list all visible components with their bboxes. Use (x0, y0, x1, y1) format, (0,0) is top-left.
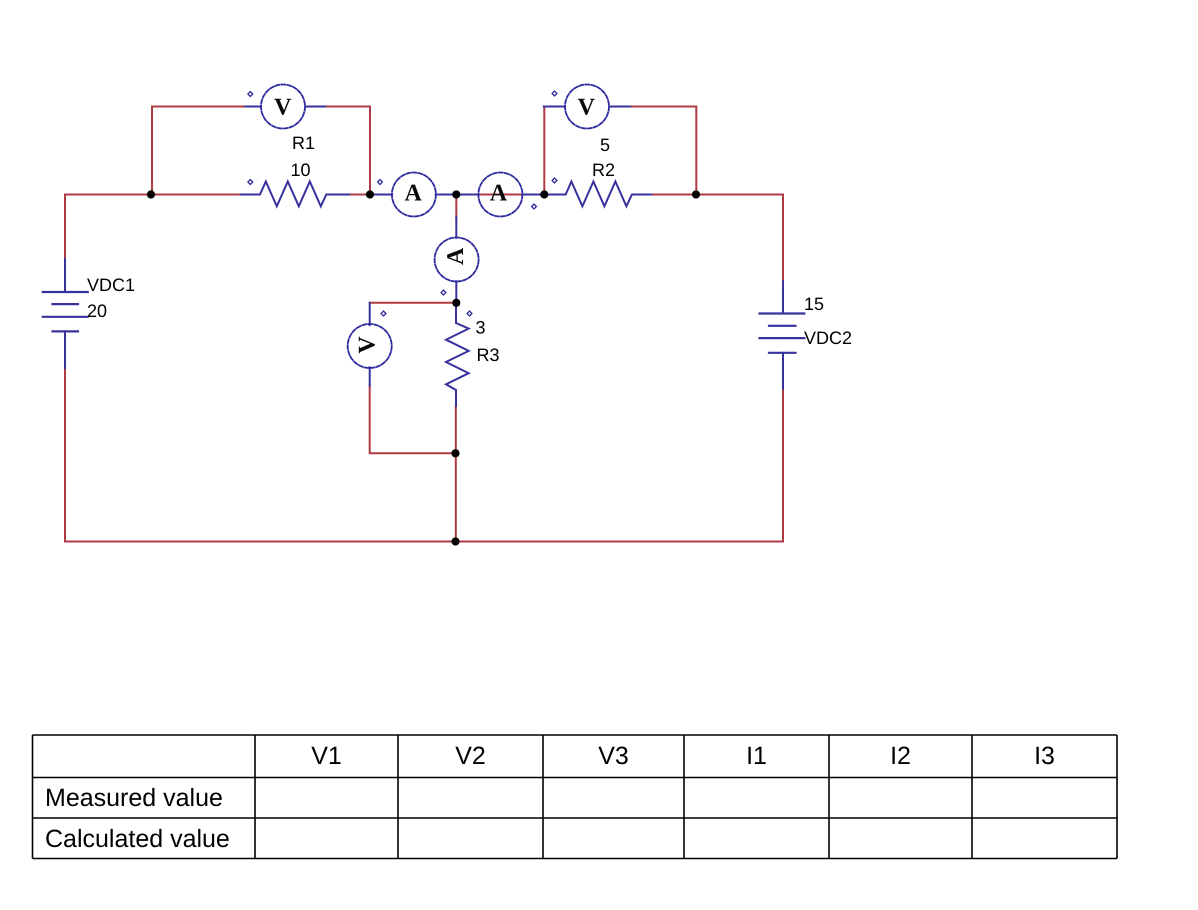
junction node A (left) (147, 190, 155, 198)
svg-text:R1: R1 (292, 133, 315, 153)
junction node G (bottom rail) (451, 537, 459, 545)
svg-text:15: 15 (804, 294, 824, 314)
svg-text:20: 20 (87, 301, 107, 321)
wire bottom rail (red) (65, 541, 783, 543)
svg-text:A: A (405, 181, 423, 207)
junction node C (between A1 and A2) (452, 190, 460, 198)
svg-text:Measured value: Measured value (45, 784, 223, 812)
junction node B (R1 right) (366, 190, 374, 198)
wire R3 bottom to rail (red) (455, 406, 457, 542)
wire node C to ammeter A3 (red) (455, 195, 457, 217)
svg-text:R3: R3 (477, 345, 500, 365)
svg-text:5: 5 (600, 135, 610, 155)
wire junction1 to R1 lead (red) (151, 194, 241, 196)
wire V2 right stub (blue) (609, 106, 630, 108)
svg-text:Calculated value: Calculated value (45, 825, 230, 853)
wire V1 loop left side (red) (152, 107, 246, 195)
wire V2 left stub (blue) (544, 106, 565, 108)
battery VDC1 (43, 292, 88, 331)
resistor R2 with leads (blue) (522, 182, 651, 207)
wire VDC1 top lead (blue) (64, 259, 66, 292)
svg-text:A: A (443, 247, 469, 265)
svg-text:I1: I1 (746, 742, 767, 770)
terminal marker diamond V2 (552, 91, 557, 96)
wire V2 loop left side (red) (543, 107, 545, 195)
voltmeter V3 circle (348, 324, 392, 368)
junction node E (A3 bottom) (452, 299, 460, 307)
wire V3 bottom stub (blue) (369, 367, 371, 385)
terminal marker diamond A2 right (532, 204, 537, 209)
wire VDC2 top feed (red) (782, 195, 784, 282)
wire A1-A2 stubs through node C (blue) (436, 194, 479, 196)
terminal marker diamond R2 left (552, 178, 557, 183)
svg-text:V: V (354, 336, 380, 354)
junction node (V2 tap) (540, 190, 548, 198)
voltmeter V2 circle (565, 85, 609, 129)
results table grid (33, 735, 1118, 859)
wire A3 top stub (blue) (455, 217, 457, 238)
svg-text:I2: I2 (890, 742, 911, 770)
svg-text:V: V (578, 95, 596, 121)
wire VDC2 top lead (blue) (782, 281, 784, 313)
resistor R3 with leads (blue) (446, 303, 469, 406)
terminal marker diamond V3 (381, 311, 386, 316)
resistor R1 (241, 182, 349, 207)
wire VDC1 top feed (red) (64, 195, 66, 260)
svg-text:R2: R2 (592, 160, 615, 180)
wire V3 bottom jog (red) (370, 386, 456, 454)
ammeter A1 circle (392, 173, 436, 217)
wire node E to V3 top (red) (370, 302, 457, 304)
terminal marker diamond R1 left (248, 180, 253, 185)
svg-text:VDC2: VDC2 (804, 328, 852, 348)
svg-text:10: 10 (291, 160, 311, 180)
svg-text:V: V (274, 95, 292, 121)
svg-text:V2: V2 (455, 742, 486, 770)
junction node D (R2 right) (692, 190, 700, 198)
wire VDC2 bottom lead (blue) (782, 353, 784, 389)
wire A1 left stub (blue) (370, 194, 392, 196)
terminal marker diamond A1 left (378, 180, 383, 185)
wire R1 right lead to node B (red) (349, 194, 370, 196)
terminal marker diamond V1 (248, 92, 253, 97)
svg-text:A: A (490, 180, 508, 206)
voltmeter V1 circle (261, 85, 305, 129)
wire left rail top horizontal (red) (65, 194, 151, 196)
wire VDC2 bottom to rail (red) (782, 389, 784, 542)
wire VDC1 bottom lead (blue) (64, 331, 66, 368)
wire V1 loop right side (red) (325, 107, 370, 195)
svg-text:V1: V1 (311, 742, 342, 770)
terminal marker diamond A3 bottom (441, 290, 446, 295)
junction node F (V3 return) (451, 449, 459, 457)
wire A3 bottom stub (blue) (455, 281, 457, 303)
wire V1 left stub (blue) (246, 106, 262, 108)
ammeter A3 circle (435, 238, 479, 282)
svg-text:I3: I3 (1034, 742, 1055, 770)
svg-text:3: 3 (476, 318, 486, 338)
ammeter A2 circle (478, 173, 522, 217)
wire VDC1 bottom to rail (red) (64, 368, 66, 542)
terminal marker diamond R3 top (467, 311, 472, 316)
wire R2 right to node D to VDC2 top corner (red) (651, 194, 783, 196)
wire V1 right stub (blue) (306, 106, 326, 108)
wire V2 loop right side (red) (630, 107, 696, 195)
svg-text:V3: V3 (598, 742, 629, 770)
wire through ammeter A2 (red) (479, 194, 522, 196)
wire V3 top stub (blue) (369, 303, 371, 325)
svg-text:VDC1: VDC1 (87, 275, 135, 295)
battery VDC2 (760, 314, 805, 353)
